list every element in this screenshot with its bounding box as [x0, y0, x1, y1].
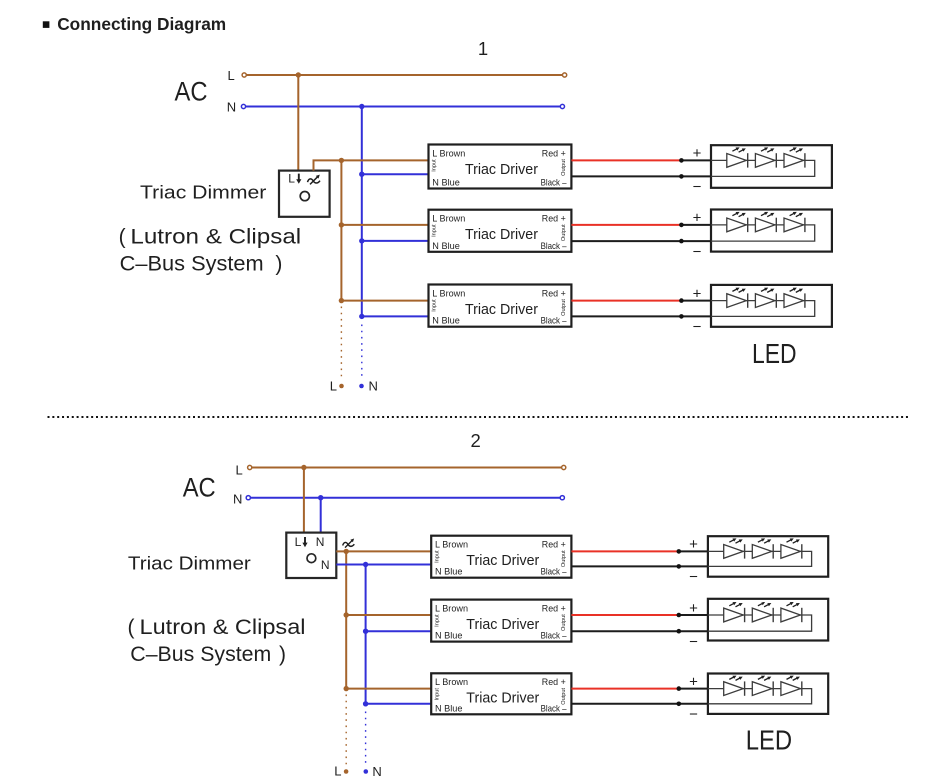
svg-text:Triac Driver: Triac Driver	[465, 227, 538, 243]
node L line left terminal	[242, 73, 246, 77]
svg-text:L Brown: L Brown	[435, 677, 468, 687]
label Triac Driver (1-2)	[465, 227, 538, 243]
label AC	[175, 77, 208, 107]
node N line right terminal	[560, 104, 564, 108]
label + row 2-1	[689, 536, 698, 553]
label - row 2	[693, 243, 702, 260]
label L tail (2)	[334, 764, 341, 779]
label Input rotated (1-1)	[432, 159, 438, 172]
svg-text:N Blue: N Blue	[432, 316, 460, 326]
svg-text:−: −	[693, 243, 702, 260]
label + row 2-2	[689, 600, 698, 617]
svg-text:Input: Input	[434, 550, 440, 563]
label Black - (1-2)	[541, 241, 568, 251]
label - row 2-2	[689, 633, 698, 650]
wire dotted blue tail (2)	[365, 712, 367, 765]
svg-text:L: L	[288, 172, 295, 186]
dotted separator line	[48, 416, 911, 418]
wire blue bus vertical (2)	[365, 565, 367, 704]
svg-text:+: +	[689, 600, 698, 617]
label L Brown (2-2)	[435, 603, 468, 613]
node dot on - lead row 2-1	[677, 564, 682, 569]
svg-text:Red +: Red +	[542, 148, 566, 158]
triac driver box 2-3	[431, 673, 571, 714]
node N line left terminal	[241, 104, 245, 108]
svg-text:+: +	[693, 210, 702, 227]
svg-text:1: 1	[478, 38, 488, 59]
LED module box 2-2	[708, 599, 828, 641]
label Red + (1-2)	[542, 214, 566, 224]
wire brown feed to driver 2-2	[346, 614, 431, 616]
LED diode 2-2-1	[724, 602, 745, 622]
svg-text:Input: Input	[432, 224, 438, 237]
svg-text:Triac Driver: Triac Driver	[466, 691, 539, 707]
label AC	[183, 472, 216, 502]
wire dimmer 2 brown output to driver row 1	[336, 550, 431, 552]
svg-text:N Blue: N Blue	[435, 631, 463, 641]
LED module box 1-3	[711, 285, 832, 327]
wire brown feed to driver 2-3	[346, 688, 431, 690]
node dot on + lead row 3	[679, 298, 684, 303]
node dot on + lead row 2-3	[677, 686, 682, 691]
label Red + (1-3)	[542, 288, 566, 298]
label + row 2-3	[689, 673, 698, 690]
label L (AC line)	[236, 463, 243, 478]
LED diode 2-3-3	[781, 676, 802, 696]
label Black - (2-2)	[541, 631, 568, 641]
svg-text:Input: Input	[434, 614, 440, 627]
svg-text:+: +	[689, 536, 698, 553]
svg-text:N Blue: N Blue	[435, 567, 463, 577]
svg-text:L Brown: L Brown	[432, 148, 465, 158]
label L Brown (2-3)	[435, 677, 468, 687]
wire black return lead row 2-3	[571, 703, 708, 705]
svg-text:N: N	[369, 379, 378, 394]
label Black - (2-3)	[541, 703, 568, 713]
label + row 3	[693, 285, 702, 302]
svg-text:N: N	[233, 492, 242, 507]
svg-text:(: (	[119, 226, 126, 249]
wire blue feed to driver 2-3	[366, 703, 432, 705]
node junction N line to blue bus	[359, 104, 364, 109]
wire red output driver 1	[571, 159, 681, 161]
label Red + (2-3)	[542, 677, 566, 687]
wire blue feed to driver 1	[362, 173, 429, 175]
wire blue bus vertical	[361, 107, 363, 318]
label - row 2-3	[689, 706, 698, 723]
internal LED string wire (2-2)	[708, 615, 812, 631]
triac dimmer box (diagram 2)	[286, 533, 336, 578]
svg-text:L Brown: L Brown	[432, 288, 465, 298]
svg-text:L: L	[334, 764, 341, 779]
wire brown feed to driver 3	[341, 300, 428, 302]
triac driver box 1-3	[429, 285, 572, 327]
node junction brown bus 2 row 2	[344, 612, 349, 617]
wire AC L line (brown)	[244, 74, 564, 76]
LED diode 1-2-3	[784, 212, 805, 232]
node junction blue bus 2 row 3	[363, 701, 368, 706]
wire black segment to LED + terminal row 1	[681, 159, 711, 161]
node L line right terminal	[563, 73, 567, 77]
svg-text:Black –: Black –	[541, 178, 568, 188]
internal LED string wire (2-1)	[708, 551, 812, 566]
node N tail terminal (2)	[364, 769, 369, 774]
node junction blue bus row 1	[359, 172, 364, 177]
label N Blue (2-3)	[435, 703, 463, 713]
svg-text:Triac Driver: Triac Driver	[465, 302, 538, 318]
label N Blue (1-1)	[432, 178, 460, 188]
label Red + (2-2)	[542, 603, 566, 613]
svg-text:Triac Dimmer: Triac Dimmer	[128, 553, 251, 574]
svg-text:Output: Output	[561, 299, 567, 316]
node L line right terminal	[562, 465, 566, 469]
dimmer 2 label L	[295, 535, 302, 549]
label Triac Driver (2-3)	[466, 691, 539, 707]
triac driver box 2-2	[431, 600, 571, 642]
svg-text:C–Bus System: C–Bus System	[130, 643, 271, 666]
svg-text:L Brown: L Brown	[432, 214, 465, 224]
node L tail terminal	[339, 384, 344, 389]
svg-text:): )	[279, 643, 286, 666]
node L line left terminal	[248, 465, 252, 469]
svg-text:+: +	[693, 145, 702, 162]
svg-text:2: 2	[471, 430, 481, 451]
dimmer 2 knob circle O	[307, 554, 316, 563]
label L (AC line)	[228, 68, 235, 83]
svg-text:Red +: Red +	[542, 677, 566, 687]
label L Brown (1-3)	[432, 288, 465, 298]
label Black - (1-1)	[541, 178, 568, 188]
svg-text:Black –: Black –	[541, 631, 568, 641]
title text Connecting Diagram	[57, 14, 226, 34]
node junction brown bus 2 row 3	[344, 686, 349, 691]
dimmer 2 brightness symbol (outside box)	[343, 539, 355, 548]
triac driver box 1-2	[429, 210, 572, 252]
label - row 1	[693, 179, 702, 196]
svg-text:AC: AC	[183, 472, 216, 502]
svg-text:Output: Output	[561, 224, 567, 241]
wire dimmer 2 blue output to driver row 1	[336, 564, 431, 566]
label L Brown (1-2)	[432, 214, 465, 224]
label Output rotated (2-3)	[561, 687, 567, 704]
svg-text:L: L	[228, 68, 235, 83]
svg-text:N: N	[372, 764, 381, 779]
wire dotted blue tail (more drivers)	[361, 325, 363, 378]
node junction blue bus 2 row 2	[363, 629, 368, 634]
LED diode 1-1-1	[727, 147, 748, 167]
node N line right terminal	[560, 496, 564, 500]
node junction brown bus row 3	[339, 298, 344, 303]
node dot on - lead row 2-2	[677, 629, 682, 634]
dimmer 2 down arrow	[302, 537, 307, 547]
triac dimmer box (diagram 1)	[279, 171, 330, 217]
node N line left terminal	[246, 496, 250, 500]
wire black return lead row 2	[571, 240, 711, 242]
svg-text:LED: LED	[746, 725, 792, 756]
triac driver box 1-1	[429, 145, 572, 189]
node junction blue bus row 2	[359, 238, 364, 243]
title bullet square	[43, 21, 50, 28]
wire drop from L line to dimmer (brown)	[297, 75, 299, 171]
LED module box 2-1	[708, 536, 828, 577]
node dot on - lead row 2-3	[677, 702, 682, 707]
label Triac Dimmer (diagram 2)	[128, 553, 251, 574]
label Red + (2-1)	[542, 540, 566, 550]
LED module box 1-2	[711, 210, 832, 252]
svg-text:−: −	[689, 569, 698, 586]
label C-Bus System line 2 (diagram 1)	[120, 253, 283, 276]
svg-text:N: N	[321, 558, 330, 572]
wire dotted brown tail (more drivers)	[340, 307, 342, 378]
wire black return lead row 2-2	[571, 630, 708, 632]
node dot on + lead row 2-2	[677, 613, 682, 618]
svg-text:Triac Driver: Triac Driver	[466, 553, 539, 569]
LED module box 2-3	[708, 674, 828, 714]
svg-text:N: N	[316, 535, 325, 549]
LED diode 1-3-3	[784, 288, 805, 308]
svg-text:AC: AC	[175, 77, 208, 107]
diagram number label 1	[478, 38, 488, 59]
svg-text:(: (	[128, 616, 135, 639]
svg-text:Input: Input	[434, 688, 440, 701]
label N Blue (2-1)	[435, 567, 463, 577]
label Output rotated (2-1)	[561, 550, 567, 567]
LED diode 1-1-3	[784, 147, 805, 167]
wire brown feed to driver 2	[341, 224, 428, 226]
label Triac Driver (1-1)	[465, 162, 538, 178]
svg-text:Lutron & Clipsal: Lutron & Clipsal	[140, 616, 306, 639]
label - row 2-1	[689, 569, 698, 586]
diagram number label 2	[471, 430, 481, 451]
wire black segment to LED + terminal row 2	[681, 224, 711, 226]
svg-text:Output: Output	[561, 687, 567, 704]
wire black return lead row 1	[571, 175, 711, 177]
LED diode 2-1-2	[752, 538, 773, 558]
LED module box 1-1	[711, 145, 832, 188]
wire AC N line (blue)	[248, 497, 562, 499]
internal LED string wire (1-2)	[711, 225, 815, 241]
node dot on - lead row 3	[679, 314, 684, 319]
label Triac Driver (2-1)	[466, 553, 539, 569]
LED diode 1-3-1	[727, 288, 748, 308]
svg-text:): )	[275, 253, 282, 276]
label L Brown (1-1)	[432, 148, 465, 158]
svg-text:N Blue: N Blue	[432, 178, 460, 188]
wire drop from L line to dimmer (2)	[303, 468, 305, 534]
svg-text:−: −	[689, 706, 698, 723]
label N Blue (2-2)	[435, 631, 463, 641]
label L Brown (2-1)	[435, 540, 468, 550]
node dot on + lead row 1	[679, 158, 684, 163]
svg-text:Triac Dimmer: Triac Dimmer	[140, 181, 266, 202]
internal LED string wire (1-3)	[711, 301, 815, 317]
LED diode 1-1-2	[755, 147, 776, 167]
node dot on - lead row 2	[679, 239, 684, 244]
LED diode 1-3-2	[755, 288, 776, 308]
svg-text:N Blue: N Blue	[435, 703, 463, 713]
label Black - (1-3)	[541, 316, 568, 326]
node dot on - lead row 1	[679, 174, 684, 179]
svg-text:−: −	[693, 319, 702, 336]
dimmer label L	[288, 172, 295, 186]
wire black segment to LED + terminal row 2-1	[679, 550, 708, 552]
wire red output driver 2-3	[571, 688, 678, 690]
dimmer 2 label N bottom	[321, 558, 330, 572]
svg-text:Output: Output	[561, 550, 567, 567]
node L tail terminal (2)	[344, 769, 349, 774]
node junction brown bus row 1	[339, 158, 344, 163]
LED diode 2-2-3	[781, 602, 802, 622]
wire red output driver 2-1	[571, 550, 678, 552]
svg-text:Output: Output	[561, 614, 567, 631]
svg-text:Triac Driver: Triac Driver	[466, 617, 539, 633]
label + row 2	[693, 210, 702, 227]
svg-text:−: −	[689, 633, 698, 650]
wire dimmer output up-and-right to driver row 1 (brown)	[314, 160, 429, 170]
label Black - (2-1)	[541, 567, 568, 577]
svg-text:Red +: Red +	[542, 540, 566, 550]
wire red output driver 3	[571, 300, 681, 302]
wire brown bus vertical (2)	[345, 551, 347, 688]
wire AC N line (blue)	[244, 106, 563, 108]
label Input rotated (1-2)	[432, 224, 438, 237]
wire dotted brown tail (2)	[345, 695, 347, 765]
wire red output driver 2	[571, 224, 681, 226]
wire black segment to LED + terminal row 2-3	[679, 688, 708, 690]
label Input rotated (2-2)	[434, 614, 440, 627]
label LED (diagram 2)	[746, 725, 792, 756]
svg-text:Red +: Red +	[542, 214, 566, 224]
label Output rotated (1-3)	[561, 299, 567, 316]
svg-text:N Blue: N Blue	[432, 241, 460, 251]
svg-text:Black –: Black –	[541, 241, 568, 251]
label N tail (2)	[372, 764, 381, 779]
dimmer down arrow	[296, 174, 301, 184]
svg-text:L: L	[295, 535, 302, 549]
node dot on + lead row 2	[679, 223, 684, 228]
label Input rotated (2-1)	[434, 550, 440, 563]
LED diode 2-2-2	[752, 602, 773, 622]
LED diode 2-3-1	[724, 676, 745, 696]
label N Blue (1-2)	[432, 241, 460, 251]
node junction blue bus 2 row 1	[363, 562, 368, 567]
wire drop from N line to dimmer (2)	[320, 498, 322, 533]
svg-text:LED: LED	[752, 338, 797, 369]
label + row 1	[693, 145, 702, 162]
label Triac Driver (1-3)	[465, 302, 538, 318]
label - row 3	[693, 319, 702, 336]
dimmer knob circle O	[300, 192, 309, 201]
svg-text:L: L	[236, 463, 243, 478]
wire blue feed to driver 2-2	[366, 630, 432, 632]
label Output rotated (1-2)	[561, 224, 567, 241]
LED diode 2-3-2	[752, 676, 773, 696]
svg-text:Red +: Red +	[542, 288, 566, 298]
dimmer 2 label N top	[316, 535, 325, 549]
wire black return lead row 2-1	[571, 565, 708, 567]
node junction L line to dimmer drop (2)	[301, 465, 306, 470]
node dot on + lead row 2-1	[677, 549, 682, 554]
svg-text:L Brown: L Brown	[435, 540, 468, 550]
label Output rotated (1-1)	[561, 159, 567, 176]
label Triac Driver (2-2)	[466, 617, 539, 633]
svg-text:Triac Driver: Triac Driver	[465, 162, 538, 178]
label LED (diagram 1)	[752, 338, 797, 369]
label C-Bus System line 2 (diagram 2)	[130, 643, 286, 666]
label Red + (1-1)	[542, 148, 566, 158]
triac driver box 2-1	[431, 536, 571, 578]
label N Blue (1-3)	[432, 316, 460, 326]
internal LED string wire (1-1)	[711, 160, 815, 176]
svg-text:Input: Input	[432, 299, 438, 312]
wire AC L line (brown)	[250, 467, 564, 469]
svg-text:+: +	[693, 285, 702, 302]
label Triac Dimmer (diagram 1)	[140, 181, 266, 202]
node junction blue bus row 3	[359, 314, 364, 319]
label Lutron Clipsal line 1 (diagram 1)	[119, 226, 302, 249]
svg-text:+: +	[689, 673, 698, 690]
label N (AC neutral)	[233, 492, 242, 507]
svg-text:N: N	[227, 100, 236, 115]
svg-text:−: −	[693, 179, 702, 196]
svg-text:Red +: Red +	[542, 603, 566, 613]
svg-text:Output: Output	[561, 159, 567, 176]
svg-text:Black –: Black –	[541, 316, 568, 326]
svg-text:L: L	[330, 378, 337, 393]
node N tail terminal	[359, 384, 364, 389]
svg-text:Input: Input	[432, 159, 438, 172]
internal LED string wire (2-3)	[708, 689, 812, 704]
svg-text:Lutron & Clipsal: Lutron & Clipsal	[130, 226, 301, 249]
wire black segment to LED + terminal row 3	[681, 300, 711, 302]
wire brown bus vertical	[340, 160, 342, 300]
label L tail	[330, 378, 337, 393]
wire blue feed to driver 3	[362, 315, 429, 317]
label Input rotated (1-3)	[432, 299, 438, 312]
LED diode 2-1-1	[724, 538, 745, 558]
svg-text:L Brown: L Brown	[435, 603, 468, 613]
dimmer brightness symbol	[308, 175, 321, 185]
svg-text:C–Bus System: C–Bus System	[120, 253, 264, 276]
svg-text:Black –: Black –	[541, 567, 568, 577]
node junction N line to dimmer drop (2)	[318, 495, 323, 500]
label N tail	[369, 379, 378, 394]
wire blue feed to driver 2	[362, 240, 429, 242]
label Input rotated (2-3)	[434, 688, 440, 701]
LED diode 2-1-3	[781, 538, 802, 558]
LED diode 1-2-2	[755, 212, 776, 232]
wire black segment to LED + terminal row 2-2	[679, 614, 708, 616]
label N (AC neutral)	[227, 100, 236, 115]
wire black return lead row 3	[571, 315, 711, 317]
svg-text:Connecting Diagram: Connecting Diagram	[57, 14, 226, 34]
node junction brown bus 2 row 1	[344, 549, 349, 554]
node junction L line to dimmer drop	[296, 72, 301, 77]
node junction brown bus row 2	[339, 222, 344, 227]
LED diode 1-2-1	[727, 212, 748, 232]
wire red output driver 2-2	[571, 614, 678, 616]
label Lutron Clipsal line 1 (diagram 2)	[128, 616, 306, 639]
label Output rotated (2-2)	[561, 614, 567, 631]
